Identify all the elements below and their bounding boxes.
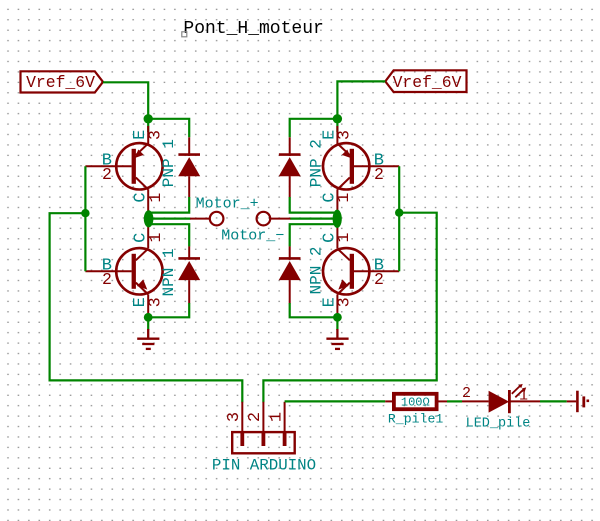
connector pin Motor_- <box>257 212 291 226</box>
svg-text:3: 3 <box>146 130 165 140</box>
transistor PNP1 <box>85 126 162 214</box>
svg-text:2: 2 <box>374 270 384 289</box>
PNP2 pin 2 (B) labels <box>374 152 384 185</box>
wire node to D3 top <box>290 119 338 138</box>
svg-text:3: 3 <box>334 130 353 140</box>
PNP1 pin 1 (C) labels <box>131 192 165 202</box>
PNP1 pin 2 (B) labels <box>102 152 112 185</box>
title text Pont_H_moteur <box>182 19 324 39</box>
global label Vref_6V (right) <box>385 70 466 92</box>
resistor R_pile1 <box>385 394 447 409</box>
wire right base rail vertical <box>398 166 400 271</box>
svg-text:2: 2 <box>102 165 112 184</box>
svg-text:LED_pile: LED_pile <box>466 416 531 431</box>
wire right midpoint to D4 cathode <box>290 224 338 246</box>
svg-text:1: 1 <box>519 387 528 404</box>
PNP1 pin 3 (E) labels <box>131 130 164 140</box>
connector PIN ARDUINO <box>232 402 295 454</box>
junction left bottom <box>144 313 153 322</box>
junction blob right midpoint <box>333 210 342 228</box>
wire Vref_6V right to node <box>337 81 385 118</box>
svg-text:2: 2 <box>102 270 112 289</box>
svg-text:Motor_−: Motor_− <box>221 227 284 244</box>
wire node to PNP2 emitter <box>336 119 338 132</box>
svg-text:100Ω: 100Ω <box>401 395 430 409</box>
NPN2 pin 1 (C) labels <box>320 233 353 243</box>
NPN2 pin 3 (E) labels <box>320 297 353 307</box>
transistor NPN2 <box>323 224 399 315</box>
junction left top <box>144 114 153 123</box>
svg-text:1: 1 <box>334 193 353 203</box>
transistor PNP2 <box>323 126 399 214</box>
svg-text:1: 1 <box>146 193 165 203</box>
wire PNP1 collector bus (midpoint) to D1 anode <box>148 197 189 213</box>
transistor NPN1 <box>85 224 162 315</box>
LED arrows <box>512 384 526 397</box>
wire Vref_6V left to node <box>103 82 148 119</box>
svg-text:Motor_+: Motor_+ <box>196 195 259 212</box>
ground symbol left <box>137 329 159 349</box>
ground symbol right <box>326 329 348 349</box>
svg-text:Pont_H_moteur: Pont_H_moteur <box>183 19 323 39</box>
diode D4 (bottom right flyback) <box>279 246 301 303</box>
wire right base to PIN2 <box>263 213 436 403</box>
svg-text:PIN ARDUINO: PIN ARDUINO <box>212 456 316 474</box>
connector pin Motor_+ <box>190 212 223 226</box>
wire right bottom node to D4 anode <box>290 303 338 317</box>
svg-text:PNP 2: PNP 2 <box>307 139 325 187</box>
NPN1 pin 1 (C) labels <box>131 233 165 243</box>
NPN1 pin 3 (E) labels <box>131 297 164 307</box>
svg-text:PNP 1: PNP 1 <box>160 139 178 187</box>
svg-text:Vref_6V: Vref_6V <box>393 73 462 92</box>
NPN1 pin 2 (B) labels <box>102 257 112 290</box>
junction right top <box>333 114 342 123</box>
wire midpoint to D2 cathode <box>148 224 189 246</box>
junction left base <box>81 209 89 217</box>
junction blob left midpoint <box>144 210 154 227</box>
PNP2 pin 3 (E) labels <box>320 130 353 140</box>
wire midpoint to Motor_+ pin <box>148 218 190 220</box>
wire left base to PIN3 <box>50 213 243 402</box>
svg-text:2: 2 <box>374 165 384 184</box>
wire node to PNP1 emitter <box>147 119 149 132</box>
PNP2 pin 1 (C) labels <box>320 192 353 202</box>
wire left bottom node to D2 anode <box>148 303 189 317</box>
svg-text:R_pile1: R_pile1 <box>388 412 443 427</box>
svg-text:1: 1 <box>334 233 353 243</box>
svg-text:Vref_6V: Vref_6V <box>26 73 95 92</box>
svg-text:1: 1 <box>146 233 165 243</box>
diode D3 (top right flyback) <box>279 137 301 197</box>
wire NPN2 emitter to ground node <box>336 315 338 330</box>
junction right base <box>395 209 403 217</box>
svg-text:NPN 1: NPN 1 <box>160 248 178 296</box>
svg-text:NPN 2: NPN 2 <box>307 246 325 294</box>
svg-text:3: 3 <box>334 297 353 307</box>
wire left base rail vertical <box>84 166 86 271</box>
svg-text:2: 2 <box>246 412 265 422</box>
svg-text:2: 2 <box>462 385 471 402</box>
wire LED to battery <box>540 400 567 402</box>
battery pile <box>567 391 589 413</box>
svg-text:1: 1 <box>267 412 286 422</box>
diode D2 (bottom left flyback) <box>178 246 200 303</box>
diode D1 (top left flyback) <box>178 137 200 197</box>
svg-text:3: 3 <box>225 412 244 422</box>
wire right midpoint to Motor_- pin <box>290 218 337 220</box>
wire node to D1 top <box>148 119 189 138</box>
svg-text:3: 3 <box>146 297 165 307</box>
wire R_pile1 to LED_pile <box>447 400 462 402</box>
wire NPN1 emitter to ground node <box>147 315 149 330</box>
LED LED_pile <box>462 390 540 413</box>
junction right bottom <box>333 313 342 322</box>
wire PNP2 collector bus to D3 anode <box>290 197 338 213</box>
NPN2 pin 2 (B) labels <box>374 257 384 290</box>
wire PIN1 to R_pile1 <box>285 400 386 402</box>
global label Vref_6V (left) <box>21 71 104 92</box>
